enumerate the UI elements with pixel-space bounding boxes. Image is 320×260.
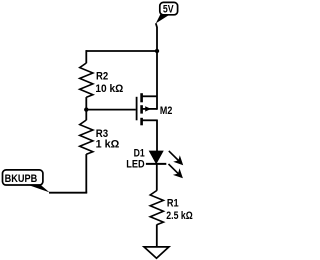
wire 5V tail to rail [156, 23, 157, 51]
svg-text:1 kΩ: 1 kΩ [96, 139, 120, 151]
power label 5V bubble [160, 2, 178, 15]
wire BKUPB horizontal [49, 192, 87, 194]
node junction R2/R3/gate [84, 107, 88, 111]
wire top horizontal [86, 50, 157, 52]
resistor R3 [80, 120, 93, 154]
power label 5V tail [156, 14, 170, 23]
wire R2 bottom lead [85, 97, 87, 120]
resistor R1 [150, 191, 163, 225]
svg-text:10 kΩ: 10 kΩ [95, 83, 123, 95]
LED light arrow 1 [169, 151, 183, 165]
ground [144, 247, 169, 258]
transistor M2 body stub [142, 108, 157, 110]
transistor M2 drain stub [142, 119, 157, 121]
svg-text:R2: R2 [96, 71, 108, 83]
svg-text:M2: M2 [160, 105, 172, 117]
svg-text:R1: R1 [167, 197, 179, 209]
LED light arrow 2 [169, 164, 183, 178]
node junction at 5V rail [155, 49, 159, 53]
transistor M2 gate bar [136, 97, 138, 121]
svg-text:5V: 5V [163, 3, 174, 15]
LED D1 cathode bar [146, 163, 166, 165]
wire R3 bottom lead [85, 154, 87, 193]
resistor R2 [80, 63, 93, 97]
transistor M2 channel bar top [140, 93, 143, 102]
wire gate [86, 109, 136, 111]
transistor M2 body arrow [145, 106, 151, 111]
wire LED to R1 [156, 164, 158, 191]
transistor M2 channel bar middle [140, 105, 143, 113]
wire left rail top lead [85, 50, 87, 63]
LED D1 triangle [150, 151, 163, 163]
net label BKUPB bubble [3, 170, 43, 185]
svg-text:2.5 kΩ: 2.5 kΩ [166, 210, 193, 222]
wire rail 5V to source/body [156, 51, 158, 110]
transistor M2 source stub [142, 95, 157, 97]
transistor M2 channel bar bottom [140, 118, 143, 126]
wire R1 to ground [156, 225, 158, 248]
wire rail drain to LED [156, 120, 158, 152]
svg-text:BKUPB: BKUPB [5, 173, 38, 185]
svg-text:LED: LED [126, 159, 145, 171]
net label BKUPB tail [27, 184, 50, 192]
